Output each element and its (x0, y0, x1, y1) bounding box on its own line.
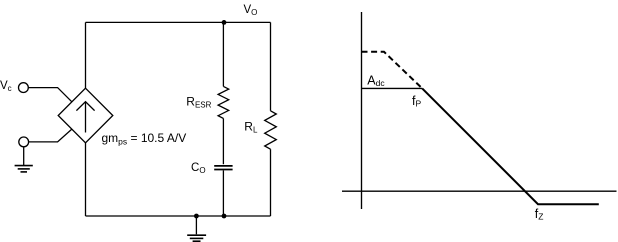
svg-text:gmps = 10.5 A/V: gmps = 10.5 A/V (102, 131, 187, 147)
